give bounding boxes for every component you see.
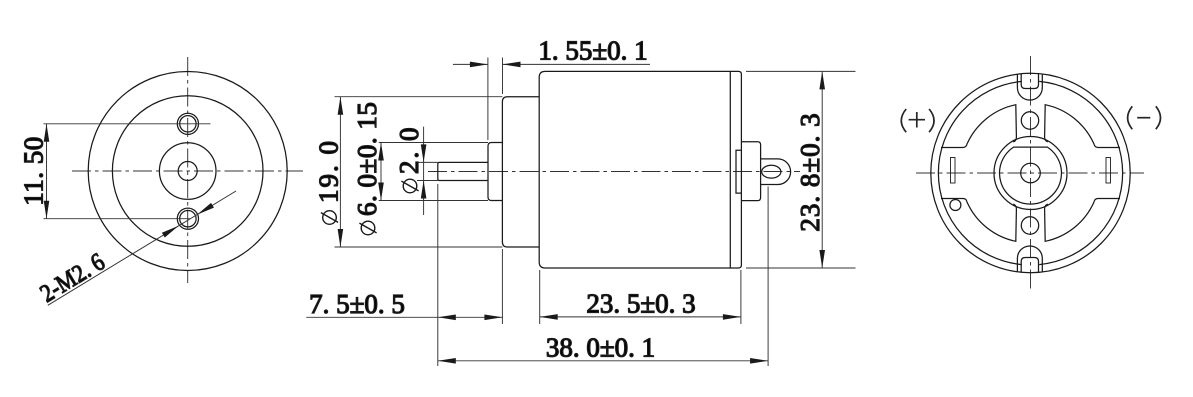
rear hub circle bbox=[994, 137, 1067, 210]
front view inner circle bbox=[112, 96, 263, 247]
can rear inner line bbox=[729, 71, 731, 268]
bottom notch outer U bbox=[1017, 246, 1042, 272]
dimension dia19 line bbox=[339, 97, 341, 247]
front view outer circle bbox=[88, 72, 287, 271]
rear view outer circle bbox=[931, 73, 1130, 272]
dimension dia6 text bbox=[352, 102, 382, 235]
terminal hole bbox=[762, 165, 781, 178]
dimension dia2 extension lines bbox=[417, 162, 438, 180]
dimension 38.0 extension line bbox=[767, 187, 769, 367]
rear top hole bbox=[1021, 112, 1038, 129]
shaft bbox=[438, 162, 488, 180]
label plus bbox=[901, 109, 934, 132]
dimension dia6 extension lines bbox=[379, 143, 488, 201]
front view horizontal centerline bbox=[72, 170, 303, 172]
dimension 23.5 extension lines bbox=[540, 270, 741, 324]
svg-text:11. 50: 11. 50 bbox=[19, 136, 49, 206]
top notch inner tab bbox=[1021, 73, 1038, 88]
front view shaft circle bbox=[178, 162, 197, 181]
svg-text:7. 5±0. 5: 7. 5±0. 5 bbox=[309, 289, 405, 319]
svg-text:38. 0±0. 1: 38. 0±0. 1 bbox=[546, 333, 655, 363]
svg-text:1. 55±0. 1: 1. 55±0. 1 bbox=[538, 36, 647, 66]
dimension 7.5 extension lines bbox=[438, 184, 503, 366]
rear bearing housing bbox=[741, 142, 760, 201]
dimension 1.55 lines bbox=[453, 63, 650, 65]
left terminal slot bbox=[951, 158, 956, 184]
dimension dia2 text bbox=[394, 126, 424, 193]
dimension 23.8 extension lines bbox=[746, 71, 856, 268]
upper-left window bbox=[941, 105, 1016, 148]
front view hub circle bbox=[159, 143, 216, 200]
side view centerline bbox=[428, 171, 800, 173]
rear view second circle bbox=[938, 81, 1122, 264]
bushing boss bbox=[488, 143, 502, 201]
top mounting hole M2.6 bbox=[177, 113, 198, 134]
dimension dia6 line bbox=[380, 143, 382, 201]
lower-left window bbox=[941, 199, 1016, 242]
dimension 38.0 line bbox=[438, 360, 768, 362]
dimension 23.5 line bbox=[540, 316, 741, 318]
svg-text:2-M2. 6: 2-M2. 6 bbox=[35, 248, 109, 308]
dimension 7.5 line bbox=[306, 316, 502, 318]
rear bottom hole bbox=[1021, 217, 1038, 234]
brush plate bbox=[736, 150, 741, 193]
lower-right window bbox=[1045, 199, 1120, 242]
leader line 2-M2.6 bbox=[48, 191, 236, 305]
terminal lug bbox=[761, 159, 791, 185]
svg-text:6. 0±0. 15: 6. 0±0. 15 bbox=[352, 102, 382, 216]
svg-text:23. 5±0. 3: 23. 5±0. 3 bbox=[586, 289, 695, 319]
dimension dia2 line bbox=[423, 127, 425, 215]
bottom notch inner tab bbox=[1021, 258, 1038, 273]
bottom mounting hole M2.6 bbox=[177, 208, 198, 229]
bottom hole centerline bbox=[44, 218, 191, 220]
dimension dia19 extension lines bbox=[335, 97, 503, 247]
rear hub inner flat-top circle bbox=[1000, 147, 1062, 204]
svg-text:2. 0: 2. 0 bbox=[394, 126, 424, 175]
small locating hole bbox=[950, 200, 961, 211]
rear view horizontal centerline bbox=[916, 172, 1144, 174]
right terminal slot bbox=[1106, 158, 1111, 184]
top hole centerline bbox=[44, 123, 211, 125]
upper-right window bbox=[1045, 105, 1120, 148]
dimension dia19 text bbox=[314, 139, 344, 224]
dimension 23.8 line bbox=[821, 71, 823, 268]
top notch outer U bbox=[1017, 74, 1042, 100]
rear view vertical centerline bbox=[1030, 56, 1032, 290]
motor can bbox=[539, 71, 741, 268]
dimension 11.50 line bbox=[46, 124, 48, 219]
dimension 1.55 extension lines bbox=[488, 58, 503, 141]
svg-text:19. 0: 19. 0 bbox=[314, 139, 344, 203]
label minus bbox=[1128, 106, 1161, 129]
svg-text:23. 8±0. 3: 23. 8±0. 3 bbox=[795, 112, 825, 231]
front view vertical centerline bbox=[187, 57, 189, 283]
front plate bbox=[502, 97, 539, 247]
rear shaft circle bbox=[1021, 163, 1041, 183]
